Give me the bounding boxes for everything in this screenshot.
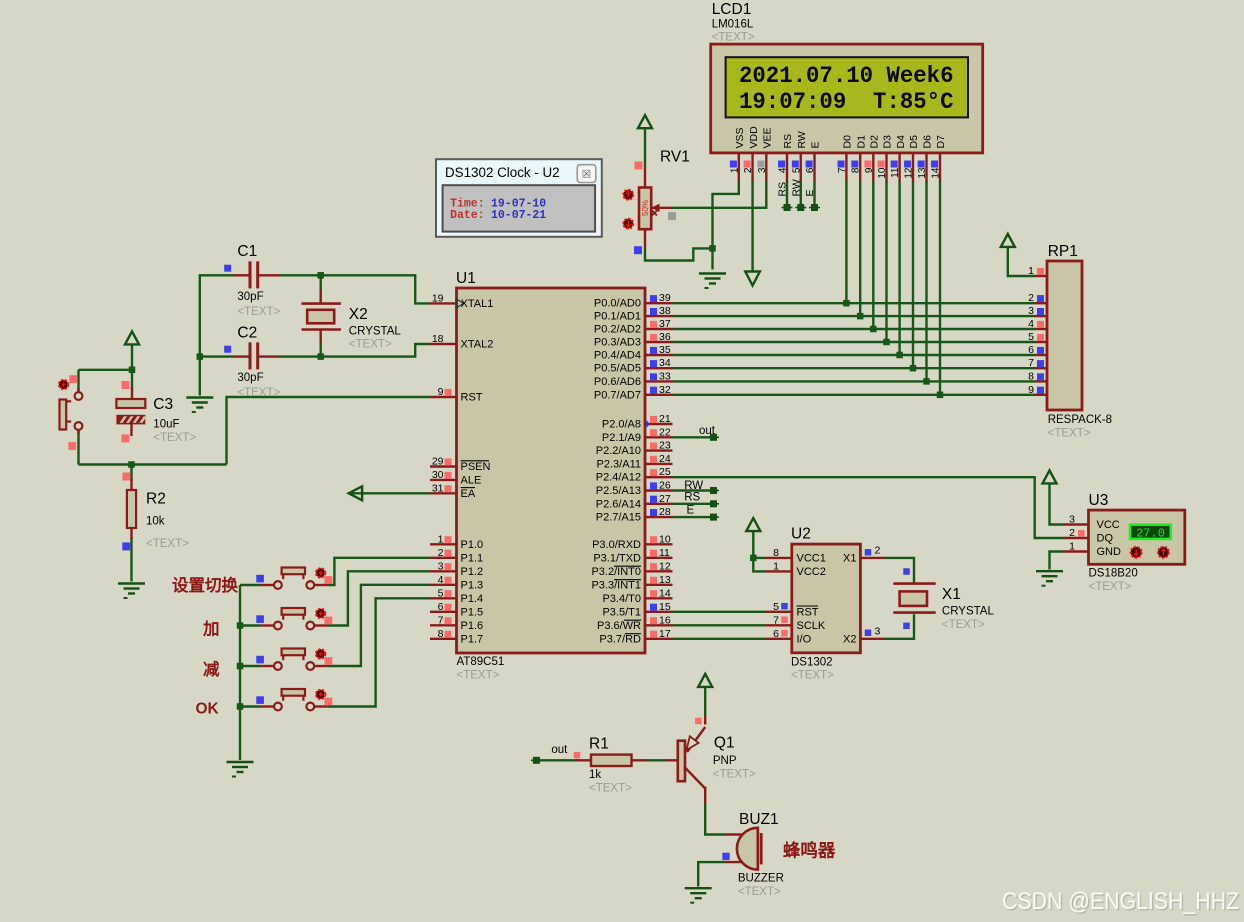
svg-text:R1: R1 xyxy=(589,736,609,753)
svg-text:1: 1 xyxy=(438,533,444,545)
svg-text:1: 1 xyxy=(773,560,779,572)
svg-text:12: 12 xyxy=(659,560,671,572)
svg-text:3: 3 xyxy=(1028,305,1034,317)
svg-text:3: 3 xyxy=(875,626,881,638)
svg-text:3: 3 xyxy=(757,167,768,173)
svg-text:SCLK: SCLK xyxy=(797,620,826,632)
svg-text:E: E xyxy=(687,505,695,517)
svg-text:CRYSTAL: CRYSTAL xyxy=(942,606,995,618)
svg-text:P3.2/INT0: P3.2/INT0 xyxy=(591,566,641,578)
svg-text:P2.2/A10: P2.2/A10 xyxy=(596,445,641,457)
svg-text:5: 5 xyxy=(1028,331,1034,343)
svg-text:3: 3 xyxy=(438,560,444,572)
svg-text:RW: RW xyxy=(790,179,802,196)
svg-text:C2: C2 xyxy=(237,325,257,342)
svg-text:DQ: DQ xyxy=(1097,533,1114,545)
svg-text:35: 35 xyxy=(659,344,671,356)
svg-text:2: 2 xyxy=(438,547,444,559)
svg-text:6: 6 xyxy=(438,601,444,613)
svg-text:EA: EA xyxy=(461,488,476,500)
svg-text:Date:: Date: xyxy=(450,209,485,222)
svg-text:8: 8 xyxy=(851,167,862,173)
svg-text:VCC: VCC xyxy=(1097,519,1120,531)
svg-text:38: 38 xyxy=(659,305,671,317)
svg-text:27: 27 xyxy=(659,493,671,505)
svg-text:2: 2 xyxy=(875,545,881,557)
svg-text:P2.1/A9: P2.1/A9 xyxy=(602,432,641,444)
svg-text:34: 34 xyxy=(659,357,671,369)
svg-text:9: 9 xyxy=(438,386,444,398)
svg-text:15: 15 xyxy=(659,601,671,613)
svg-text:10: 10 xyxy=(659,533,671,545)
svg-text:VSS: VSS xyxy=(734,127,746,148)
svg-text:加: 加 xyxy=(202,620,220,639)
svg-text:RV1: RV1 xyxy=(660,149,690,166)
svg-text:7: 7 xyxy=(1028,357,1034,369)
svg-text:2021.07.10 Week6: 2021.07.10 Week6 xyxy=(739,63,954,89)
svg-text:D3: D3 xyxy=(882,135,894,149)
svg-text:P1.2: P1.2 xyxy=(461,566,484,578)
svg-text:ALE: ALE xyxy=(461,474,482,486)
svg-text:R2: R2 xyxy=(146,491,166,508)
svg-text:RS: RS xyxy=(684,492,700,504)
svg-text:13: 13 xyxy=(659,574,671,586)
svg-text:30pF: 30pF xyxy=(237,372,263,384)
svg-text:<TEXT>: <TEXT> xyxy=(1089,581,1132,593)
svg-text:7: 7 xyxy=(837,167,848,173)
svg-text:RW: RW xyxy=(796,131,808,148)
svg-text:13: 13 xyxy=(917,167,928,179)
svg-text:LM016L: LM016L xyxy=(712,19,754,31)
svg-text:2: 2 xyxy=(1028,292,1034,304)
svg-text:DS1302 Clock - U2: DS1302 Clock - U2 xyxy=(445,165,560,180)
svg-text:P2.5/A13: P2.5/A13 xyxy=(596,485,641,497)
svg-text:6: 6 xyxy=(805,167,816,173)
svg-text:10: 10 xyxy=(877,167,888,179)
svg-text:RST: RST xyxy=(797,606,819,618)
svg-text:P2.0/A8: P2.0/A8 xyxy=(602,419,641,431)
svg-text:P3.4/T0: P3.4/T0 xyxy=(602,593,641,605)
svg-text:<TEXT>: <TEXT> xyxy=(349,339,392,351)
svg-text:26: 26 xyxy=(659,480,671,492)
svg-text:28: 28 xyxy=(659,506,671,518)
svg-text:P3.1/TXD: P3.1/TXD xyxy=(593,552,641,564)
svg-text:2: 2 xyxy=(1069,527,1075,539)
svg-text:10k: 10k xyxy=(146,516,165,528)
svg-text:1k: 1k xyxy=(589,769,601,781)
svg-text:19: 19 xyxy=(432,292,444,304)
svg-text:P3.6/WR: P3.6/WR xyxy=(597,620,641,632)
svg-text:36: 36 xyxy=(659,331,671,343)
svg-text:16: 16 xyxy=(659,614,671,626)
svg-text:P2.6/A14: P2.6/A14 xyxy=(596,498,641,510)
svg-text:5: 5 xyxy=(773,601,779,613)
svg-text:OK: OK xyxy=(196,701,220,718)
svg-text:<TEXT>: <TEXT> xyxy=(1048,428,1091,440)
svg-text:P1.5: P1.5 xyxy=(461,606,484,618)
svg-text:P1.3: P1.3 xyxy=(461,579,484,591)
svg-text:50%: 50% xyxy=(641,200,650,216)
svg-text:P3.5/T1: P3.5/T1 xyxy=(602,606,641,618)
svg-text:23: 23 xyxy=(659,440,671,452)
svg-text:U1: U1 xyxy=(456,270,476,287)
svg-text:21: 21 xyxy=(659,413,671,425)
svg-text:9: 9 xyxy=(1028,384,1034,396)
svg-text:P0.7/AD7: P0.7/AD7 xyxy=(594,389,641,401)
svg-text:BUZ1: BUZ1 xyxy=(739,811,779,828)
svg-text:<TEXT>: <TEXT> xyxy=(153,432,196,444)
svg-text:6: 6 xyxy=(773,628,779,640)
svg-text:2: 2 xyxy=(743,167,754,173)
svg-text:out: out xyxy=(551,744,568,756)
svg-text:6: 6 xyxy=(1028,344,1034,356)
svg-text:P0.6/AD6: P0.6/AD6 xyxy=(594,376,641,388)
svg-text:C1: C1 xyxy=(237,243,257,260)
svg-text:8: 8 xyxy=(438,628,444,640)
svg-text:CSDN @ENGLISH_HHZ: CSDN @ENGLISH_HHZ xyxy=(1002,888,1239,915)
svg-text:33: 33 xyxy=(659,370,671,382)
svg-text:U2: U2 xyxy=(791,526,811,543)
svg-text:P1.0: P1.0 xyxy=(461,539,484,551)
svg-text:VEE: VEE xyxy=(762,127,774,148)
svg-text:4: 4 xyxy=(778,167,789,173)
svg-text:3: 3 xyxy=(1069,514,1075,526)
svg-text:4: 4 xyxy=(438,574,444,586)
svg-text:31: 31 xyxy=(432,482,444,494)
svg-text:27.0: 27.0 xyxy=(1136,527,1165,541)
svg-text:<TEXT>: <TEXT> xyxy=(712,32,755,44)
svg-text:<TEXT>: <TEXT> xyxy=(237,306,280,318)
svg-text:P0.5/AD5: P0.5/AD5 xyxy=(594,363,641,375)
svg-text:30: 30 xyxy=(432,469,444,481)
svg-text:XTAL2: XTAL2 xyxy=(461,339,494,351)
svg-text:14: 14 xyxy=(659,587,671,599)
svg-text:P1.4: P1.4 xyxy=(461,593,484,605)
svg-text:DS1302: DS1302 xyxy=(791,657,833,669)
svg-text:Q1: Q1 xyxy=(714,735,735,752)
svg-text:5: 5 xyxy=(791,167,802,173)
svg-text:P0.1/AD1: P0.1/AD1 xyxy=(594,311,641,323)
svg-text:PSEN: PSEN xyxy=(461,461,491,473)
svg-text:10-07-21: 10-07-21 xyxy=(491,209,546,222)
svg-text:12: 12 xyxy=(904,167,915,179)
svg-text:P2.7/A15: P2.7/A15 xyxy=(596,512,641,524)
svg-text:RS: RS xyxy=(777,182,789,197)
svg-text:X2: X2 xyxy=(349,306,368,323)
svg-text:7: 7 xyxy=(438,614,444,626)
svg-text:D2: D2 xyxy=(869,135,881,149)
svg-text:P1.1: P1.1 xyxy=(461,552,484,564)
svg-text:X2: X2 xyxy=(843,633,856,645)
svg-text:D0: D0 xyxy=(842,135,854,149)
svg-text:39: 39 xyxy=(659,292,671,304)
svg-text:P0.2/AD2: P0.2/AD2 xyxy=(594,324,641,336)
svg-text:30pF: 30pF xyxy=(237,291,263,303)
svg-text:out: out xyxy=(699,425,716,437)
svg-text:VDD: VDD xyxy=(748,126,760,149)
svg-text:DS18B20: DS18B20 xyxy=(1089,568,1138,580)
svg-text:5: 5 xyxy=(438,587,444,599)
svg-text:D7: D7 xyxy=(935,135,947,149)
svg-text:P0.3/AD3: P0.3/AD3 xyxy=(594,337,641,349)
svg-text:1: 1 xyxy=(729,167,740,173)
svg-text:RST: RST xyxy=(461,392,483,404)
svg-text:D6: D6 xyxy=(922,135,934,149)
svg-text:CRYSTAL: CRYSTAL xyxy=(349,326,402,338)
svg-text:11: 11 xyxy=(659,547,670,559)
svg-text:I/O: I/O xyxy=(797,633,812,645)
svg-text:25: 25 xyxy=(659,466,671,478)
svg-text:XTAL1: XTAL1 xyxy=(461,298,494,310)
svg-text:19:07:09 T:85°C: 19:07:09 T:85°C xyxy=(739,89,954,115)
svg-text:10uF: 10uF xyxy=(153,419,179,431)
svg-text:P3.3/INT1: P3.3/INT1 xyxy=(591,579,641,591)
svg-text:<TEXT>: <TEXT> xyxy=(738,886,781,898)
svg-text:18: 18 xyxy=(432,333,444,345)
svg-text:24: 24 xyxy=(659,453,671,465)
svg-text:RS: RS xyxy=(782,134,794,149)
svg-text:P3.0/RXD: P3.0/RXD xyxy=(592,539,641,551)
svg-text:8: 8 xyxy=(773,547,779,559)
svg-text:1: 1 xyxy=(1069,541,1075,553)
svg-text:D1: D1 xyxy=(855,135,867,149)
svg-text:14: 14 xyxy=(931,167,942,179)
svg-text:29: 29 xyxy=(432,456,444,468)
svg-text:P1.7: P1.7 xyxy=(461,633,484,645)
svg-text:37: 37 xyxy=(659,318,671,330)
svg-text:RESPACK-8: RESPACK-8 xyxy=(1048,414,1112,426)
svg-text:C3: C3 xyxy=(153,396,173,413)
svg-text:<TEXT>: <TEXT> xyxy=(146,538,189,550)
svg-text:减: 减 xyxy=(203,659,220,679)
svg-text:PNP: PNP xyxy=(713,755,737,767)
svg-text:D5: D5 xyxy=(908,135,920,149)
svg-text:4: 4 xyxy=(1028,318,1034,330)
svg-text:GND: GND xyxy=(1097,546,1122,558)
svg-text:8: 8 xyxy=(1028,370,1034,382)
svg-text:9: 9 xyxy=(864,167,875,173)
svg-text:RW: RW xyxy=(684,480,703,492)
svg-text:<TEXT>: <TEXT> xyxy=(457,670,500,682)
svg-text:<TEXT>: <TEXT> xyxy=(589,783,632,795)
svg-text:X1: X1 xyxy=(843,552,856,564)
svg-text:LCD1: LCD1 xyxy=(712,1,752,18)
svg-text:E: E xyxy=(810,141,822,148)
svg-text:11: 11 xyxy=(890,167,901,178)
svg-text:7: 7 xyxy=(773,614,779,626)
svg-text:P0.4/AD4: P0.4/AD4 xyxy=(594,350,641,362)
svg-text:RP1: RP1 xyxy=(1048,243,1078,260)
svg-text:P1.6: P1.6 xyxy=(461,620,484,632)
svg-text:<TEXT>: <TEXT> xyxy=(942,619,985,631)
svg-text:蜂鸣器: 蜂鸣器 xyxy=(783,841,836,861)
svg-text:VCC2: VCC2 xyxy=(797,566,826,578)
svg-text:设置切换: 设置切换 xyxy=(172,575,239,595)
svg-text:X1: X1 xyxy=(942,586,961,603)
svg-text:☒: ☒ xyxy=(582,169,591,181)
svg-text:VCC1: VCC1 xyxy=(797,552,826,564)
svg-text:<TEXT>: <TEXT> xyxy=(791,670,834,682)
svg-text:P0.0/AD0: P0.0/AD0 xyxy=(594,298,641,310)
svg-text:P2.4/A12: P2.4/A12 xyxy=(596,472,641,484)
svg-text:AT89C51: AT89C51 xyxy=(457,656,505,668)
svg-text:D4: D4 xyxy=(895,135,907,149)
svg-text:P3.7/RD: P3.7/RD xyxy=(599,633,641,645)
svg-text:P2.3/A11: P2.3/A11 xyxy=(597,458,641,470)
svg-text:1: 1 xyxy=(1028,265,1034,277)
svg-text:BUZZER: BUZZER xyxy=(738,873,784,885)
svg-text:<TEXT>: <TEXT> xyxy=(237,387,280,399)
svg-text:U3: U3 xyxy=(1089,492,1109,509)
svg-text:17: 17 xyxy=(659,628,671,640)
svg-text:E: E xyxy=(804,189,816,196)
svg-text:22: 22 xyxy=(659,426,671,438)
svg-text:32: 32 xyxy=(659,384,671,396)
svg-text:<TEXT>: <TEXT> xyxy=(713,769,756,781)
